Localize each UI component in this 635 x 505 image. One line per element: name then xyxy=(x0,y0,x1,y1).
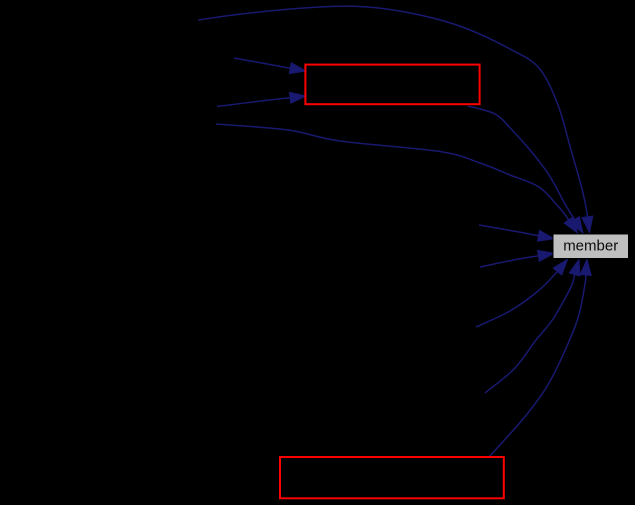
edge: caller 2 -> truncated node (upper arrow into top red box) xyxy=(234,58,306,74)
edge: caller 1 -> member (outer top arc) xyxy=(198,6,593,232)
node: truncated red box (top) xyxy=(305,65,479,105)
edge: caller 5 -> member (left side upper) xyxy=(479,225,554,241)
edge: caller 4 -> member (long shallow curve) xyxy=(216,124,578,233)
edge: caller 7 -> member (bottom curve 1) xyxy=(476,259,568,327)
edge: caller 3 -> truncated node (lower arrow into top red box) xyxy=(217,92,306,106)
edge: truncated node -> member (from top red box) xyxy=(468,106,583,233)
edge: caller 6 -> member (left side lower) xyxy=(480,250,554,267)
svg-text:member: member xyxy=(563,238,618,255)
edge: caller 8 -> member (bottom curve 2) xyxy=(485,259,580,393)
node: member (current item, grey box with label) xyxy=(553,234,629,259)
edge: truncated node 2 -> member (from bottom red box) xyxy=(489,259,591,457)
node: truncated red box (bottom) xyxy=(280,457,504,498)
